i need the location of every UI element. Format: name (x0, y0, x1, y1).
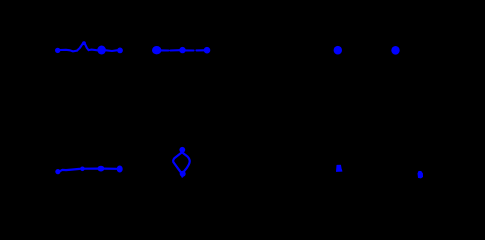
node E1 (junction dot) (80, 167, 85, 172)
node H (isolated blob, bottom far right) (418, 171, 423, 178)
wire (R1 to C1 blob) (89, 49, 98, 52)
node A3 (junction dot) (117, 48, 123, 54)
node C (isolated dot, top right) (334, 46, 342, 55)
wire (E0 to E1) (60, 169, 80, 171)
capacitor C1 (filled blob) (97, 46, 106, 55)
wire (B1 to B2) (161, 49, 179, 51)
node F-top (dot above lamp) (179, 147, 185, 153)
node B1 (large junction dot) (152, 46, 161, 54)
node E0 (pen-down dot, bottom-left wire) (55, 169, 60, 174)
node F-bottom (dot at loop bottom) (180, 171, 186, 177)
resistor R1 (single freehand spike) (77, 43, 89, 51)
node at R1 apex (82, 41, 86, 45)
node G (isolated blob, bottom right) (336, 165, 342, 171)
node E2 (junction dot) (97, 166, 104, 172)
node D (isolated dot, top far right) (391, 46, 399, 55)
lamp DS1 (freehand diamond loop) (173, 152, 190, 174)
node B2 (junction dot) (179, 47, 185, 53)
wire (E1 to E2) (85, 168, 98, 170)
wire (A1 to resistor R1 spike) (60, 50, 78, 52)
node A1 (junction dot, top-left wire) (55, 48, 60, 53)
wire (E2 to E3) (104, 168, 116, 170)
node E3 (end dot) (117, 166, 123, 173)
node B3 (junction dot) (204, 47, 211, 54)
wire (pen tail below loop) (181, 176, 183, 177)
wire (C1 to node A3) (106, 49, 117, 52)
wire (B2 to B3) (186, 49, 204, 51)
